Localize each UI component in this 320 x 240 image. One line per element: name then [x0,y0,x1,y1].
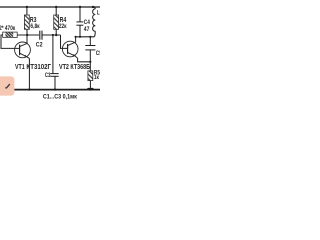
svg-text:6,8к: 6,8к [30,23,40,30]
wire C5 bottom stem [89,50,91,62]
wire R5 bottom lead [89,81,91,90]
node R3/top rail [26,6,28,8]
svg-text:L1: L1 [97,9,100,16]
node emitter/R5/C5 [89,61,91,63]
capacitor C3 [50,74,58,77]
wire R2 left to VT1 base [1,35,19,48]
wire C3 bottom stem [54,76,56,89]
wire bottom common rail [0,89,100,91]
capacitor C5 [85,46,95,50]
node C3/mid line [52,34,54,36]
svg-text:1к: 1к [94,75,99,81]
transistor VT1 KT3102G [15,42,31,58]
svg-text:VT1: VT1 [15,62,25,71]
wire R4 top lead [55,7,57,15]
svg-text:C2: C2 [36,42,43,49]
svg-text:C5: C5 [96,50,100,57]
svg-text:C4: C4 [84,19,90,26]
node R4/top rail [55,6,57,8]
node C3/bottom rail [54,88,56,90]
junction dots [26,6,95,91]
wire VT2 base drop [61,35,68,48]
wire C5 top stem [89,37,91,46]
wire R3 bottom / VT1 collector [26,29,28,43]
node C4 bottom [79,36,81,38]
node VT2 collector [75,36,77,38]
node R4/mid line [55,34,57,36]
wire top supply rail [0,6,100,8]
resistor R2 470k horizontal [3,32,18,37]
wire R3 top lead [26,7,28,15]
node VT1 emitter/bottom rail [28,88,30,90]
svg-text:R2* 470к: R2* 470к [0,25,16,32]
svg-text:C1...C3 0,1мк: C1...C3 0,1мк [43,94,78,101]
node L1/top rail [92,6,94,8]
transistor VT2 KT368B [62,37,78,59]
svg-text:47: 47 [84,26,90,33]
VT1 emitter arrow [24,55,26,57]
wire C2 to VT2 base corner [43,34,61,36]
wire C4 bottom stem [79,25,81,37]
wire VT1 emitter down [28,58,30,89]
resistor R4 22k [54,15,59,29]
wire mid line R2 to C2 [17,34,39,36]
wire R4 bottom lead [55,29,57,35]
wire C3 top stem [52,35,54,74]
svg-text:C3: C3 [45,72,51,79]
wire C4 top stem [79,7,81,22]
wire collector node line [76,36,95,38]
node C4/top rail [79,6,81,8]
capacitor C4 [76,22,83,25]
svg-text:КТ3102Г: КТ3102Г [26,62,51,71]
node VT1 collector/mid line [26,34,28,36]
wire VT2 emitter line [78,58,91,62]
svg-text:22к: 22к [59,23,67,30]
svg-text:VT2 КТ368Б: VT2 КТ368Б [59,62,90,71]
node C5 top [89,36,91,38]
inductor L1 [93,7,96,37]
edit button overlay (pink pencil) [0,76,14,95]
node R5/bottom rail T-bar [87,88,93,90]
capacitor C2 [40,31,42,40]
resistor R5 [88,71,93,81]
VT2 emitter arrow [73,54,75,56]
wire R5 top lead [89,62,91,71]
resistor R3 6.8k [24,15,29,29]
